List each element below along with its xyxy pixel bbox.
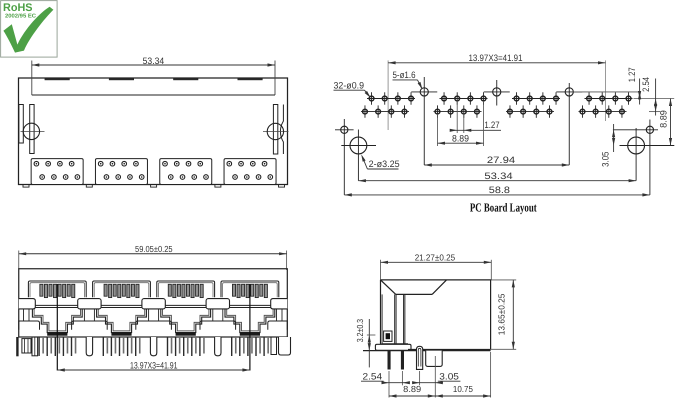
RoHS green checkmark <box>3 7 53 53</box>
front view: port 1 window <box>28 281 86 297</box>
svg-text:2.54: 2.54 <box>641 77 651 92</box>
RoHS logo box <box>1 1 58 58</box>
pcb layout: 5 holes dia 1.6 top row <box>411 91 437 93</box>
top view: right latch bar 1 (edge line with circle cutout arc) <box>280 105 283 155</box>
svg-text:13.65±0.25: 13.65±0.25 <box>497 294 507 336</box>
front view: port 2 window <box>93 281 151 297</box>
pcb layout: dimension 27.94 <box>424 164 569 166</box>
side view: dimension 10.75 <box>490 352 492 398</box>
svg-text:2.54: 2.54 <box>363 372 383 382</box>
front view: right edge tabs <box>271 337 277 355</box>
pcb layout: dimension 58.8 <box>344 194 650 196</box>
side view: pin 1 <box>388 351 391 370</box>
svg-text:53.34: 53.34 <box>143 56 165 66</box>
pcb layout: pin groups 32 holes <box>367 98 415 100</box>
svg-text:8.89: 8.89 <box>403 384 421 394</box>
svg-text:PC Board Layout: PC Board Layout <box>470 201 537 215</box>
front view: port 4 contact comb <box>232 284 235 296</box>
side view: shield finger omega pin <box>417 346 423 369</box>
front view: port 2 latch slot bottom bar <box>111 333 131 336</box>
side view: dimension 8.89 <box>388 385 390 397</box>
pcb layout: vertical dimension 8.89 right <box>670 99 672 146</box>
svg-text:1.27: 1.27 <box>484 120 499 130</box>
side view: sloped top face (trapezoid) <box>381 280 396 295</box>
svg-text:10.75: 10.75 <box>453 384 473 394</box>
side view: right face vertical <box>490 280 492 350</box>
front view: port 1 contact comb <box>40 284 43 296</box>
pcb layout: dim 13.97X3=41.91 extension lines <box>387 60 389 130</box>
pcb layout: left mounting hole dia 3.25 <box>341 145 376 147</box>
top view: right latch bar 2 <box>273 105 277 155</box>
front view: dimension 13.97X3=41.91 <box>57 369 250 371</box>
side view: dimension 2.54 <box>388 371 390 385</box>
svg-text:3.05: 3.05 <box>601 152 611 167</box>
front view: port1 and port4 center lines (dim extensions) <box>56 284 58 371</box>
pcb layout: dimension 53.34 <box>358 180 636 182</box>
pcb layout: hole dia 1.6 bottom right <box>613 129 658 131</box>
front view: bridge bumps between ports <box>78 299 101 309</box>
front view: port 4 window <box>221 281 279 297</box>
svg-text:58.8: 58.8 <box>489 185 510 195</box>
side view: dimension 21.27+-0.25 <box>381 261 492 263</box>
svg-text:2-ø3.25: 2-ø3.25 <box>369 159 400 169</box>
front view: dim 59.05 extension lines <box>18 251 20 269</box>
top view: left latch bar 2 <box>30 105 34 154</box>
pcb layout: dimension 1.27 group2 <box>456 101 458 134</box>
pcb layout: hole dia 1.6 bottom left <box>335 129 354 131</box>
side view: dimension 13.65+-0.25 right <box>491 279 516 281</box>
svg-text:8.89: 8.89 <box>658 110 668 128</box>
svg-text:32-ø0.9: 32-ø0.9 <box>334 80 365 90</box>
front view: port 1 latch slot bottom bar <box>47 333 67 336</box>
front view: U-shaped shield pins <box>86 337 92 356</box>
top view: bottom feet marks <box>23 185 29 188</box>
side view: bottom flange <box>381 343 408 345</box>
pcb layout: dimension 13.97X3=41.91 <box>388 62 605 64</box>
front view: port 3 window <box>157 281 215 297</box>
front view: port 2 contact comb <box>104 284 107 296</box>
side view: dimension 3.2+-0.3 left <box>368 319 370 367</box>
front view: bottom pin comb <box>16 337 18 356</box>
pcb layout: vertical dimension 3.05 right <box>613 124 615 152</box>
svg-text:3.2±0.3: 3.2±0.3 <box>355 319 365 342</box>
svg-text:13.97X3=41.91: 13.97X3=41.91 <box>469 53 523 63</box>
svg-text:13.97X3=41.91: 13.97X3=41.91 <box>130 361 178 371</box>
front view: body outline <box>19 269 288 337</box>
top view: 4 port notches on front edge <box>45 78 69 80</box>
front view: port 1 lower opening staircase <box>32 309 82 333</box>
top view: inner front edge line <box>32 94 275 96</box>
side view: body top line <box>381 279 492 281</box>
side view: front face verticals <box>380 280 382 344</box>
svg-text:1.27: 1.27 <box>627 67 637 82</box>
svg-text:5-ø1.6: 5-ø1.6 <box>393 70 416 80</box>
front view: port 4 latch slot bottom bar <box>240 333 260 336</box>
pcb layout: vertical dimension 1.27 right <box>639 79 641 105</box>
svg-text:59.05±0.25: 59.05±0.25 <box>135 244 173 254</box>
side view: mounting post <box>426 351 443 367</box>
side view: dimension 3.05 <box>419 371 421 385</box>
svg-text:21.27±0.25: 21.27±0.25 <box>415 253 455 263</box>
svg-text:8.89: 8.89 <box>452 133 469 143</box>
side view: pin 2 <box>401 351 404 370</box>
svg-text:53.34: 53.34 <box>484 171 512 181</box>
pcb layout: label 2-dia3.25 with leader <box>362 157 367 169</box>
pcb layout: dimension 8.89 group2 <box>437 114 439 146</box>
top view: left latch bar 1 <box>19 105 23 144</box>
svg-text:27.94: 27.94 <box>487 155 515 165</box>
top view: dimension 53.34 <box>32 64 275 66</box>
top view: dim 53.34 extension lines <box>31 61 33 96</box>
front view: dimension 59.05+-0.25 <box>19 253 287 255</box>
top view: left mounting circle <box>21 130 45 132</box>
top view: outer body rectangle <box>19 78 288 185</box>
top view: right mounting circle <box>263 131 289 133</box>
front view: port 3 lower opening staircase <box>161 309 211 333</box>
front view: port 3 contact comb <box>168 284 171 296</box>
side view: seating plane line <box>363 350 491 352</box>
svg-text:2002/95 EC: 2002/95 EC <box>5 13 36 20</box>
front view: port 3 latch slot bottom bar <box>176 333 196 336</box>
side view: dim 21.27 extension lines <box>380 260 382 280</box>
front view: right edge bump <box>271 299 288 309</box>
front view: divider channels and blocks <box>83 309 85 321</box>
side view: standoff peg with dark square <box>384 331 392 341</box>
svg-text:RoHS: RoHS <box>3 2 33 14</box>
front view: port 2 lower opening staircase <box>97 309 147 333</box>
front view: port 4 lower opening staircase <box>225 309 275 333</box>
top view: 4 pin blocks with solder dots <box>31 159 83 185</box>
front view: left edge bump <box>19 299 36 309</box>
svg-text:3.05: 3.05 <box>439 372 459 382</box>
pcb layout: right mounting hole dia 3.25 <box>620 145 675 147</box>
pcb layout: vertical dimension 2.54 right <box>655 79 657 116</box>
side view: body bottom edge <box>408 348 491 350</box>
front view: full-width shelf lines <box>19 304 288 306</box>
pcb layout: right extension lines <box>573 91 640 93</box>
